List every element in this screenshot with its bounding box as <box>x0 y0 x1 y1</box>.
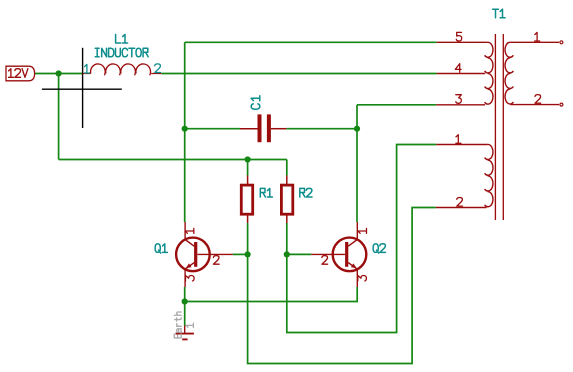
L1 pin 1 number <box>85 64 161 73</box>
wire V+ vertical drop <box>58 74 60 160</box>
inductor L1 <box>83 64 162 75</box>
T1 pin 3 number <box>456 95 462 104</box>
wire R2 bottom to T1 pin1 feedback <box>287 145 437 333</box>
resistor R2 <box>281 176 292 224</box>
Q2 pin 2 number <box>322 256 328 265</box>
label L1 <box>116 34 128 43</box>
supply flag 12V <box>6 66 35 81</box>
wire emitter rail <box>185 287 358 302</box>
junction C1 right <box>354 126 360 132</box>
label C1 <box>251 96 260 110</box>
ground Earth symbol <box>176 326 194 340</box>
T1 core <box>494 34 496 220</box>
label 12V <box>9 69 28 78</box>
T1 sec pin 1 number <box>535 32 540 41</box>
junction R1 top <box>245 156 251 162</box>
label Q2 <box>373 244 385 253</box>
T1 sec pin 1 end dot <box>560 41 563 44</box>
wire Q2 collector vertical <box>356 105 358 222</box>
transformer T1 <box>436 34 563 220</box>
T1 feedback winding <box>485 144 493 206</box>
capacitor C1 <box>258 114 271 142</box>
junction Q1 base <box>245 251 251 257</box>
T1 sec pin 2 end dot <box>560 103 563 106</box>
transistor Q2 <box>311 222 366 287</box>
T1 pin 5 lead <box>437 41 488 43</box>
wire R1 top stub <box>247 160 249 176</box>
T1 primary winding <box>485 42 493 104</box>
junction Q2 base <box>284 251 290 257</box>
wire Q2 base <box>287 253 312 255</box>
wire 12V flag to L1 pin1 <box>34 73 82 75</box>
value INDUCTOR <box>95 48 148 57</box>
wire ground stub <box>184 302 186 326</box>
Q2 pin 1 number <box>358 228 367 233</box>
ground pin 1 number <box>186 323 193 327</box>
label R2 <box>300 188 312 197</box>
wire Q1 emitter drop <box>184 287 186 302</box>
wire T1 pin3 rail <box>357 104 436 106</box>
T1 pin 4 lead <box>437 73 485 75</box>
T1 pin 3 lead <box>436 104 485 106</box>
sheet origin crosshair <box>42 48 122 128</box>
T1 pin 2 number <box>457 198 463 207</box>
wire C1 right lead <box>286 128 357 130</box>
Q1 pin 3 number <box>186 276 195 282</box>
wire Q1 collector vertical <box>184 42 186 222</box>
wire R1 bottom to T1 pin2 feedback <box>248 208 436 364</box>
T1 sec pin 1 lead <box>510 41 559 43</box>
junction C1 left <box>182 126 188 132</box>
ground pin name Earth <box>174 312 181 338</box>
T1 sec pin 2 number <box>535 95 541 104</box>
wire Q1 base <box>233 253 248 255</box>
resistor R1 <box>241 176 252 224</box>
transistor Q1 <box>176 222 233 287</box>
Q1 pin 1 number <box>185 228 194 233</box>
label T1 <box>493 9 506 18</box>
label Q1 <box>155 244 167 253</box>
wire top rail to T1 pin5 <box>185 41 437 43</box>
T1 pin 1 number <box>456 135 461 144</box>
T1 pin 1 lead <box>436 144 487 146</box>
Q1 pin 2 number <box>213 256 219 265</box>
L1 pin 2 number <box>155 64 161 73</box>
T1 pin 4 number <box>455 64 461 73</box>
wire base bias rail <box>59 159 287 161</box>
T1 secondary winding <box>505 42 513 104</box>
T1 sec pin 2 lead <box>510 104 559 106</box>
junction V+ <box>56 70 62 76</box>
wire C1 left lead <box>185 128 240 130</box>
wire R2 top stub <box>286 160 288 176</box>
wire L1 out to T1 pin4 <box>161 73 436 75</box>
Q2 pin 3 number <box>358 276 367 282</box>
label R1 <box>260 188 272 197</box>
junction emitter/ground <box>182 298 188 304</box>
T1 pin 5 number <box>456 32 461 41</box>
T1 pin 2 lead <box>436 207 487 209</box>
